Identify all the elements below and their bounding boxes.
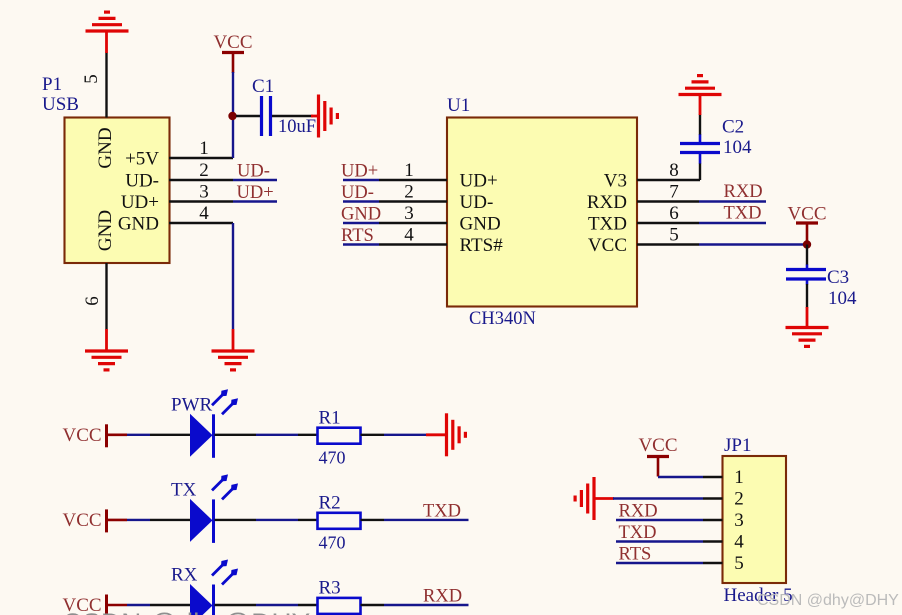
svg-text:UD+: UD+ — [121, 192, 159, 213]
svg-text:10uF: 10uF — [278, 117, 316, 137]
svg-text:TXD: TXD — [619, 523, 657, 543]
svg-text:2: 2 — [199, 160, 209, 181]
svg-text:TXD: TXD — [423, 501, 461, 521]
svg-text:6: 6 — [82, 296, 103, 306]
svg-text:RXD: RXD — [423, 587, 462, 607]
svg-text:UD+: UD+ — [341, 162, 378, 182]
svg-text:VCC: VCC — [638, 435, 677, 456]
svg-text:CSDN @dhy@DHY: CSDN @dhy@DHY — [62, 608, 311, 615]
svg-text:3: 3 — [199, 182, 209, 203]
svg-text:470: 470 — [319, 532, 346, 552]
svg-text:1: 1 — [199, 138, 209, 159]
svg-text:RTS: RTS — [619, 545, 652, 565]
svg-text:GND: GND — [460, 214, 501, 235]
svg-text:GND: GND — [95, 210, 116, 251]
svg-text:4: 4 — [734, 532, 744, 553]
svg-text:+5V: +5V — [125, 149, 159, 170]
svg-text:C1: C1 — [252, 76, 274, 97]
svg-text:CH340N: CH340N — [469, 309, 536, 329]
svg-text:UD-: UD- — [460, 192, 494, 213]
svg-text:P1: P1 — [42, 74, 62, 95]
svg-text:RTS#: RTS# — [460, 235, 504, 256]
svg-text:2: 2 — [404, 182, 414, 203]
svg-text:R1: R1 — [319, 407, 341, 428]
svg-text:UD-: UD- — [125, 171, 159, 192]
svg-text:470: 470 — [319, 447, 346, 467]
svg-text:V3: V3 — [604, 171, 627, 192]
svg-text:TXD: TXD — [724, 204, 762, 224]
svg-text:3: 3 — [734, 510, 744, 531]
svg-text:UD+: UD+ — [237, 183, 274, 203]
svg-text:RTS: RTS — [341, 226, 374, 246]
svg-text:U1: U1 — [447, 95, 470, 116]
svg-text:104: 104 — [723, 137, 752, 158]
svg-text:1: 1 — [404, 160, 414, 181]
svg-text:GND: GND — [341, 205, 381, 225]
svg-text:104: 104 — [828, 288, 857, 309]
svg-text:VCC: VCC — [63, 425, 102, 446]
svg-text:RXD: RXD — [724, 182, 763, 202]
svg-text:VCC: VCC — [588, 235, 627, 256]
svg-text:UD-: UD- — [341, 183, 374, 203]
svg-text:VCC: VCC — [63, 510, 102, 531]
svg-text:R3: R3 — [319, 578, 341, 599]
svg-text:RX: RX — [171, 565, 198, 586]
svg-text:1: 1 — [734, 467, 744, 488]
svg-text:3: 3 — [404, 203, 414, 224]
svg-text:TX: TX — [171, 479, 197, 500]
svg-text:8: 8 — [669, 160, 679, 181]
svg-text:TXD: TXD — [588, 214, 627, 235]
svg-text:5: 5 — [669, 225, 679, 246]
svg-text:RXD: RXD — [619, 502, 658, 522]
svg-text:7: 7 — [669, 182, 679, 203]
svg-text:4: 4 — [404, 225, 414, 246]
svg-text:2: 2 — [734, 489, 744, 510]
svg-text:USB: USB — [42, 94, 79, 115]
svg-text:5: 5 — [734, 553, 744, 574]
svg-text:VCC: VCC — [787, 204, 826, 225]
svg-text:VCC: VCC — [213, 32, 252, 53]
svg-text:PWR: PWR — [171, 394, 213, 415]
svg-text:C2: C2 — [722, 117, 744, 138]
svg-text:GND: GND — [95, 127, 116, 168]
svg-text:RXD: RXD — [587, 192, 627, 213]
svg-text:R2: R2 — [319, 492, 341, 513]
svg-text:UD-: UD- — [237, 162, 270, 182]
svg-text:UD+: UD+ — [460, 171, 498, 192]
svg-text:JP1: JP1 — [724, 435, 751, 456]
svg-text:CSDN @dhy@DHY: CSDN @dhy@DHY — [757, 592, 899, 609]
svg-text:GND: GND — [118, 214, 159, 235]
svg-text:C3: C3 — [827, 267, 849, 288]
svg-text:4: 4 — [199, 203, 209, 224]
svg-text:5: 5 — [81, 74, 102, 84]
svg-text:6: 6 — [669, 203, 679, 224]
